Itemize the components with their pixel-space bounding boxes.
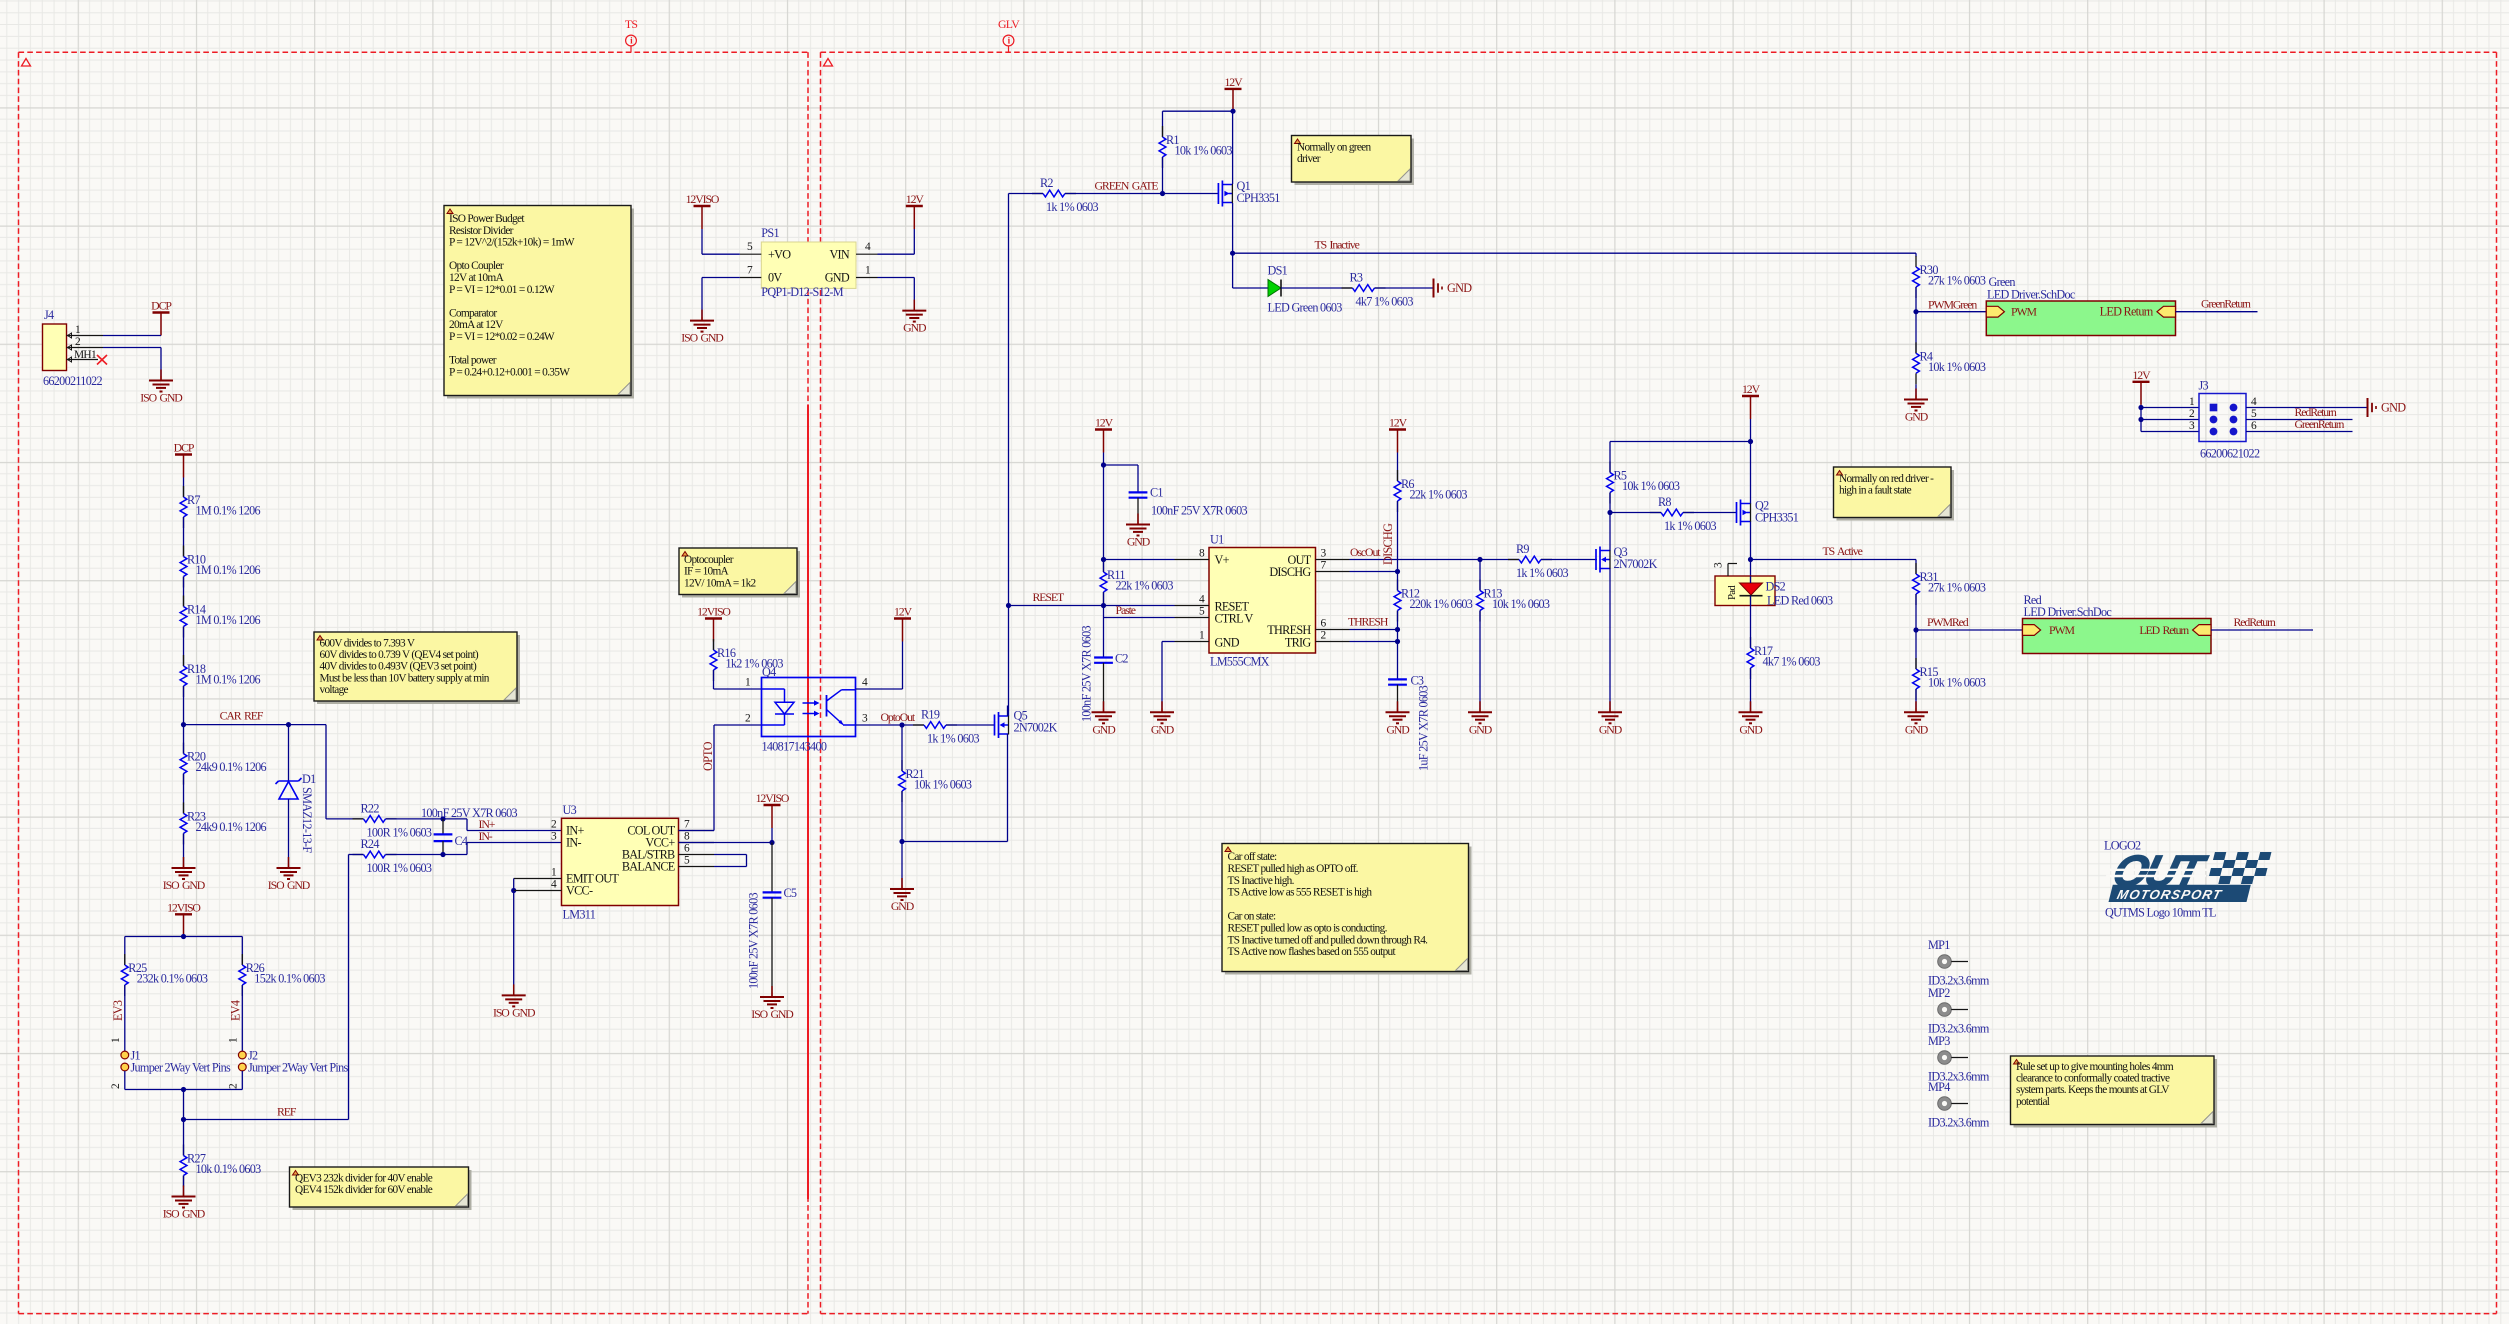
wire R3 to GND bar xyxy=(1375,287,1434,289)
svg-text:232k 0.1% 0603: 232k 0.1% 0603 xyxy=(137,972,208,986)
note QEV divider xyxy=(290,1167,472,1210)
wire R26 to J2 xyxy=(241,985,243,1051)
svg-text:24k9 0.1% 1206: 24k9 0.1% 1206 xyxy=(196,760,267,774)
ground ISO GND under R23 xyxy=(163,857,206,892)
net label CAR REF xyxy=(220,709,264,723)
resistor R12 xyxy=(1394,572,1473,622)
svg-text:Resistor Divider: Resistor Divider xyxy=(449,225,514,237)
ground GND under C1 xyxy=(1126,514,1151,549)
svg-text:ID3.2x3.6mm: ID3.2x3.6mm xyxy=(1928,1116,1990,1130)
power port 12VISO above C5 xyxy=(756,791,790,843)
isolation barrier solid red line xyxy=(807,405,809,1199)
svg-text:Normally on green: Normally on green xyxy=(1297,142,1371,154)
resistor R16 xyxy=(710,639,783,681)
svg-text:clearance to conformally coate: clearance to conformally coated tractive xyxy=(2016,1073,2170,1085)
net label REF xyxy=(277,1105,297,1119)
svg-text:LED Return: LED Return xyxy=(2139,623,2189,637)
GLV region dashed border xyxy=(821,52,2497,1313)
svg-text:4k7 1% 0603: 4k7 1% 0603 xyxy=(1356,295,1414,309)
svg-text:27k 1% 0603: 27k 1% 0603 xyxy=(1928,581,1986,595)
ground ISO GND under J4 xyxy=(140,370,183,405)
svg-text:GND: GND xyxy=(825,271,850,285)
svg-text:DS2: DS2 xyxy=(1766,580,1786,594)
note normally on red driver xyxy=(1834,467,1955,521)
note car off state xyxy=(1222,844,1472,975)
wire R30 to PWMGreen xyxy=(1913,287,1918,353)
wire TS Inactive xyxy=(1233,253,1916,256)
svg-text:BALANCE: BALANCE xyxy=(622,860,675,874)
wire R21 junction to GND xyxy=(901,842,903,886)
svg-text:CAR REF: CAR REF xyxy=(220,709,264,723)
svg-text:10k 1% 0603: 10k 1% 0603 xyxy=(1492,597,1550,611)
svg-text:IF = 10mA: IF = 10mA xyxy=(684,566,730,578)
resistor R9 xyxy=(1508,542,1569,580)
svg-text:EV3: EV3 xyxy=(111,1000,125,1021)
svg-text:4k7 1% 0603: 4k7 1% 0603 xyxy=(1763,655,1821,669)
wire U3 pin1 pin4 to ISO GND xyxy=(511,879,561,992)
svg-text:DISCHG: DISCHG xyxy=(1269,565,1311,579)
svg-text:TS: TS xyxy=(625,17,638,31)
net label RedReturn at J3 xyxy=(2295,405,2337,419)
net label OPTO vertical xyxy=(701,741,715,771)
resistor R15 xyxy=(1913,658,1986,708)
svg-text:22k 1% 0603: 22k 1% 0603 xyxy=(1410,488,1468,502)
wire Paste row xyxy=(1104,606,1175,658)
svg-text:GND: GND xyxy=(1905,410,1929,424)
svg-text:ISO Power Budget: ISO Power Budget xyxy=(449,213,525,225)
net label TS Active xyxy=(1823,544,1863,558)
svg-text:C2: C2 xyxy=(1115,652,1128,666)
svg-text:REF: REF xyxy=(277,1105,297,1119)
svg-text:LM311: LM311 xyxy=(563,908,596,922)
svg-text:140817143400: 140817143400 xyxy=(762,740,827,754)
svg-text:VIN: VIN xyxy=(829,248,849,262)
svg-text:LED Return: LED Return xyxy=(2100,305,2154,319)
svg-text:GND: GND xyxy=(1469,722,1493,736)
wire PS1 pin1 to GND xyxy=(878,278,915,308)
svg-text:PWM: PWM xyxy=(2049,623,2075,637)
net label PWMGreen xyxy=(1928,298,1977,312)
power port DCP upper xyxy=(174,441,195,498)
resistor R14 xyxy=(180,596,260,638)
svg-text:potential: potential xyxy=(2016,1096,2050,1108)
wire Q3 drain to R5 xyxy=(1609,513,1611,551)
wire R24 to U3 IN- xyxy=(386,843,562,858)
ground GND under R13 xyxy=(1468,701,1493,736)
wire PWMGreen xyxy=(1916,311,1986,313)
svg-text:12VISO: 12VISO xyxy=(697,605,731,619)
wire R19 to Q5 gate xyxy=(946,724,995,726)
svg-text:TS Inactive turned off and pul: TS Inactive turned off and pulled down t… xyxy=(1228,934,1429,946)
resistor R18 xyxy=(180,655,260,697)
net label OptoOut xyxy=(881,710,916,724)
svg-text:12V: 12V xyxy=(894,605,913,619)
svg-text:GND: GND xyxy=(903,321,927,335)
wire J4 pin2 down xyxy=(103,348,161,377)
svg-text:TS Inactive high.: TS Inactive high. xyxy=(1228,875,1295,887)
resistor R3 xyxy=(1342,271,1414,309)
svg-text:PWMRed: PWMRed xyxy=(1927,615,1969,629)
wire R20 to R23 xyxy=(183,774,185,814)
svg-text:voltage: voltage xyxy=(320,684,349,696)
net label OscOut xyxy=(1350,545,1381,559)
wire DS1 to R3 xyxy=(1281,287,1353,289)
svg-text:CPH3351: CPH3351 xyxy=(1755,511,1799,525)
svg-text:MP3: MP3 xyxy=(1928,1034,1950,1048)
wire THRESH pin6 xyxy=(1350,629,1398,631)
wire jumper bottom rail xyxy=(125,1071,243,1122)
resistor R21 xyxy=(899,725,972,802)
note voltage divider calcs xyxy=(314,632,520,704)
wire R6 to DISCHG row xyxy=(1395,501,1400,574)
wire 12V rail to R1 xyxy=(1163,109,1236,137)
net label GreenReturn at J3 xyxy=(2295,417,2345,431)
net label GreenReturn at sheet xyxy=(2201,297,2251,311)
svg-text:LED Driver.SchDoc: LED Driver.SchDoc xyxy=(1987,288,2076,302)
wire R8 to Q2 gate xyxy=(1683,512,1737,514)
svg-text:10k 1% 0603: 10k 1% 0603 xyxy=(1175,144,1233,158)
svg-text:DCP: DCP xyxy=(151,299,172,313)
svg-text:12VISO: 12VISO xyxy=(167,900,201,914)
svg-text:QEV4 152k divider for 60V enab: QEV4 152k divider for 60V enable xyxy=(295,1184,433,1196)
svg-text:GND: GND xyxy=(1599,722,1623,736)
wire R25 to J1 xyxy=(124,985,126,1051)
ground GND under R4 xyxy=(1904,389,1929,424)
svg-text:PQP1-D12-S12-M: PQP1-D12-S12-M xyxy=(761,285,843,299)
wire RESET xyxy=(1009,603,1175,608)
wire V+ row xyxy=(1101,557,1175,562)
TS directive marker xyxy=(625,17,638,52)
ground GND under PS1 xyxy=(902,300,927,335)
net label IN+ xyxy=(479,817,496,831)
net label PWMRed xyxy=(1927,615,1969,629)
net label EV4 vertical xyxy=(229,1000,243,1021)
svg-text:GND: GND xyxy=(1739,722,1763,736)
power port 12VISO above jumpers xyxy=(167,900,201,936)
capacitor C5 xyxy=(747,843,797,993)
svg-text:GND: GND xyxy=(1151,722,1175,736)
svg-text:GND: GND xyxy=(1447,281,1472,295)
resistor R10 xyxy=(180,546,260,588)
svg-text:CPH3351: CPH3351 xyxy=(1237,191,1281,205)
resistor R1 xyxy=(1159,126,1232,194)
wire 12VISO to PS1 pin5 xyxy=(702,253,740,255)
note normally on green driver xyxy=(1292,136,1415,186)
svg-text:Pad: Pad xyxy=(1726,585,1738,600)
svg-text:2N7002K: 2N7002K xyxy=(1014,721,1058,735)
svg-text:24k9 0.1% 1206: 24k9 0.1% 1206 xyxy=(196,820,267,834)
svg-text:LM555CMX: LM555CMX xyxy=(1210,655,1270,669)
wire TRIG pin2 xyxy=(1350,641,1398,643)
svg-text:66200621022: 66200621022 xyxy=(2200,447,2260,461)
LED DS1 green xyxy=(1268,264,1343,315)
svg-text:J3: J3 xyxy=(2199,379,2209,393)
svg-text:100R 1% 0603: 100R 1% 0603 xyxy=(367,861,432,875)
svg-text:high in a fault state: high in a fault state xyxy=(1839,485,1912,497)
comparator U3 LM311 xyxy=(551,803,714,922)
wire U3 VCC+ to 12VISO xyxy=(679,840,775,845)
svg-text:12V: 12V xyxy=(1389,416,1408,430)
svg-text:12V: 12V xyxy=(1095,416,1114,430)
resistor R22 xyxy=(353,801,432,839)
power port 12V at PS1 xyxy=(906,192,925,254)
svg-text:1M 0.1% 1206: 1M 0.1% 1206 xyxy=(196,673,261,687)
capacitor C1 xyxy=(1129,486,1248,521)
svg-text:MH1: MH1 xyxy=(74,349,97,361)
resistor R20 xyxy=(180,725,266,785)
resistor R27 xyxy=(180,1120,261,1193)
svg-text:U3: U3 xyxy=(563,803,577,817)
svg-text:GND: GND xyxy=(891,899,915,913)
jumper J1 xyxy=(110,1037,231,1089)
svg-text:C4: C4 xyxy=(455,834,468,848)
ground ISO GND under D1 xyxy=(268,857,311,892)
svg-text:TS Inactive: TS Inactive xyxy=(1315,238,1360,252)
power port 12V above C1 xyxy=(1095,416,1114,560)
connector J4 xyxy=(43,308,104,388)
wire Q1 drain xyxy=(1232,111,1234,184)
net label Green above sheet xyxy=(1989,275,2016,289)
svg-text:1M 0.1% 1206: 1M 0.1% 1206 xyxy=(196,613,261,627)
net label Paste xyxy=(1116,603,1136,617)
resistor R13 xyxy=(1477,560,1550,709)
wire J3 pin4 to GND bar xyxy=(2246,407,2368,409)
wire Q1 source to TS Inactive xyxy=(1230,203,1235,288)
ground GND under R17 xyxy=(1739,701,1764,736)
svg-text:Normally on red driver -: Normally on red driver - xyxy=(1839,473,1934,485)
svg-text:RESET pulled high as OPTO off.: RESET pulled high as OPTO off. xyxy=(1228,863,1359,875)
svg-text:100nF 25V X7R 0603: 100nF 25V X7R 0603 xyxy=(1080,626,1094,722)
svg-text:TRIG: TRIG xyxy=(1285,636,1312,650)
svg-text:12V: 12V xyxy=(2132,368,2151,382)
svg-text:GND: GND xyxy=(1215,636,1240,650)
svg-text:ISO GND: ISO GND xyxy=(493,1005,536,1019)
wire Q3 source to GND xyxy=(1609,569,1611,709)
svg-text:12V at 10mA: 12V at 10mA xyxy=(449,272,505,284)
svg-text:D1: D1 xyxy=(302,772,316,786)
ground GND under Q3 xyxy=(1598,701,1623,736)
svg-text:TS Active: TS Active xyxy=(1823,544,1863,558)
resistor R17 xyxy=(1747,606,1820,709)
svg-text:ISO GND: ISO GND xyxy=(751,1007,794,1021)
zener diode D1 xyxy=(276,725,317,864)
svg-text:P = 0.24+0.12+0.001 = 0.35W: P = 0.24+0.12+0.001 = 0.35W xyxy=(449,366,570,378)
note ISO power budget xyxy=(444,206,634,399)
svg-text:ISO GND: ISO GND xyxy=(681,331,724,345)
svg-text:GLV: GLV xyxy=(998,17,1020,31)
net label EV3 vertical xyxy=(111,1000,125,1021)
svg-text:IN-: IN- xyxy=(566,836,581,850)
wire R18 to CAR REF xyxy=(183,686,185,725)
svg-text:+VO: +VO xyxy=(768,248,791,262)
note optocoupler xyxy=(679,548,800,598)
wire CAR REF to R22 xyxy=(326,725,364,819)
svg-text:PWMGreen: PWMGreen xyxy=(1928,298,1977,312)
QUT Motorsport logo LOGO2 xyxy=(2100,839,2273,920)
svg-text:1M 0.1% 1206: 1M 0.1% 1206 xyxy=(196,504,261,518)
wire R23 to ISO GND xyxy=(183,833,185,864)
net label RedReturn at sheet xyxy=(2234,615,2276,629)
mounting pad MP2 xyxy=(1928,986,1990,1036)
svg-text:R9: R9 xyxy=(1516,542,1529,556)
svg-text:GND: GND xyxy=(1127,535,1151,549)
svg-text:THRESH: THRESH xyxy=(1348,615,1389,629)
svg-text:C1: C1 xyxy=(1150,486,1163,500)
svg-text:CTRL V: CTRL V xyxy=(1215,612,1254,626)
svg-text:152k 0.1% 0603: 152k 0.1% 0603 xyxy=(254,972,325,986)
resistor R8 xyxy=(1610,495,1717,533)
svg-text:Paste: Paste xyxy=(1116,603,1136,617)
svg-text:GND: GND xyxy=(1905,722,1929,736)
svg-text:Q4: Q4 xyxy=(762,665,776,679)
power port 12V above J3 xyxy=(2132,368,2151,432)
svg-text:27k 1% 0603: 27k 1% 0603 xyxy=(1928,274,1986,288)
resistor R7 xyxy=(180,486,260,528)
wire U3 BAL/STRB to BALANCE loop xyxy=(714,855,747,867)
svg-text:600V divides to 7.393 V: 600V divides to 7.393 V xyxy=(320,638,416,650)
svg-text:GND: GND xyxy=(1386,722,1410,736)
wire GreenReturn xyxy=(2176,311,2258,313)
svg-text:RESET pulled low as opto is co: RESET pulled low as opto is conducting. xyxy=(1228,922,1388,934)
svg-text:OptoOut: OptoOut xyxy=(881,710,916,724)
svg-text:1k 1% 0603: 1k 1% 0603 xyxy=(1664,519,1717,533)
wire R12 to THRESH xyxy=(1395,611,1400,633)
svg-text:MOTORSPORT: MOTORSPORT xyxy=(2116,887,2224,902)
svg-text:12V: 12V xyxy=(906,192,925,206)
svg-text:C5: C5 xyxy=(784,886,797,900)
svg-text:Comparator: Comparator xyxy=(449,307,497,319)
net label THRESH xyxy=(1348,615,1389,629)
svg-text:R22: R22 xyxy=(361,801,380,815)
wire R9 to Q3 gate xyxy=(1541,559,1597,561)
resistor R5 xyxy=(1607,442,1680,516)
resistor R11 xyxy=(1100,560,1173,606)
svg-text:12V: 12V xyxy=(1742,382,1761,396)
ground GND under U1 xyxy=(1150,701,1175,736)
wire U1 GND pin to ground xyxy=(1162,642,1175,709)
svg-text:R8: R8 xyxy=(1658,495,1671,509)
svg-text:LED Driver.SchDoc: LED Driver.SchDoc xyxy=(2024,605,2113,619)
resistor R30 xyxy=(1913,256,1986,298)
svg-text:100nF 25V X7R 0603: 100nF 25V X7R 0603 xyxy=(747,893,761,989)
LED DS2 red xyxy=(1740,576,1833,608)
svg-text:TS Active low as 555 RESET is: TS Active low as 555 RESET is high xyxy=(1228,887,1373,899)
wire Q5 drain up xyxy=(1007,706,1009,717)
svg-text:1uF 25V X7R 0603: 1uF 25V X7R 0603 xyxy=(1417,685,1431,771)
ground ISO GND under U3 xyxy=(493,984,536,1019)
wire REF xyxy=(184,855,349,1120)
svg-text:Optocoupler: Optocoupler xyxy=(684,554,734,566)
wire J3 pin5 xyxy=(2246,419,2353,421)
power port 12V above opto pin4 xyxy=(894,605,913,690)
svg-text:P = VI = 12*0.01 = 0.12W: P = VI = 12*0.01 = 0.12W xyxy=(449,284,555,296)
svg-text:V+: V+ xyxy=(1215,553,1230,567)
GLV directive marker xyxy=(998,17,1020,52)
svg-text:VCC-: VCC- xyxy=(566,884,593,898)
svg-text:GND: GND xyxy=(1092,722,1116,736)
capacitor C4 xyxy=(421,806,517,855)
transistor Q3 2N7002K xyxy=(1596,545,1658,573)
TS isolation region dashed border xyxy=(19,52,809,1313)
svg-text:DS1: DS1 xyxy=(1268,264,1288,278)
svg-text:U1: U1 xyxy=(1210,533,1224,547)
svg-text:OPTO: OPTO xyxy=(701,741,715,771)
wire opto pin4 to 12V xyxy=(856,688,903,690)
wire J4 pin1 to DCP xyxy=(103,335,161,337)
resistor R4 xyxy=(1913,342,1986,395)
svg-text:1k 1% 0603: 1k 1% 0603 xyxy=(1516,566,1569,580)
svg-text:driver: driver xyxy=(1297,153,1321,165)
mounting pad MP4 xyxy=(1928,1080,1990,1130)
net label IN- xyxy=(479,829,493,843)
resistor R24 xyxy=(349,837,432,875)
ground GND bar at J3 xyxy=(2368,398,2407,417)
transistor Q2 CPH3351 xyxy=(1737,499,1799,526)
svg-text:Must be less than 10V battery: Must be less than 10V battery supply at … xyxy=(320,672,490,684)
resistor R19 xyxy=(913,708,980,746)
mounting pad MP3 xyxy=(1928,1034,1990,1084)
wire R14 to R18 xyxy=(183,627,185,667)
svg-text:220k 1% 0603: 220k 1% 0603 xyxy=(1410,597,1473,611)
svg-text:100nF 25V X7R 0603: 100nF 25V X7R 0603 xyxy=(421,806,517,820)
resistor R26 xyxy=(239,954,325,996)
wire 12V to J3 pins xyxy=(2138,405,2199,432)
svg-text:GND: GND xyxy=(2381,401,2406,415)
svg-text:RESET: RESET xyxy=(1033,590,1065,604)
svg-text:10k 1% 0603: 10k 1% 0603 xyxy=(1928,676,1986,690)
svg-text:Jumper 2Way Vert Pins: Jumper 2Way Vert Pins xyxy=(131,1061,231,1075)
note mounting hole rule xyxy=(2011,1056,2218,1128)
svg-text:Car off state:: Car off state: xyxy=(1228,851,1278,863)
wire GREEN GATE xyxy=(1065,191,1218,196)
svg-text:OscOut: OscOut xyxy=(1350,545,1381,559)
svg-text:PWM: PWM xyxy=(2011,305,2037,319)
svg-text:R2: R2 xyxy=(1040,176,1053,190)
resistor R2 xyxy=(1009,176,1099,214)
svg-text:EV4: EV4 xyxy=(229,1000,243,1021)
net label RESET xyxy=(1033,590,1065,604)
svg-text:60V divides to 0.739 V (QEV4 s: 60V divides to 0.739 V (QEV4 set point) xyxy=(320,649,479,661)
svg-text:1k 1% 0603: 1k 1% 0603 xyxy=(927,732,980,746)
resistor R6 xyxy=(1394,470,1467,512)
svg-text:Jumper 2Way Vert Pins: Jumper 2Way Vert Pins xyxy=(248,1061,348,1075)
ground ISO GND under R27 xyxy=(163,1186,206,1221)
no-ERC marker on MH1 xyxy=(97,355,107,365)
svg-text:ISO GND: ISO GND xyxy=(163,878,206,892)
svg-text:10k 0.1% 0603: 10k 0.1% 0603 xyxy=(196,1162,262,1176)
ground ISO GND under PS1 xyxy=(681,310,724,345)
sheet symbol Green LED Driver xyxy=(1986,288,2175,336)
svg-text:P = 12V^2/(152k+10k) = 1mW: P = 12V^2/(152k+10k) = 1mW xyxy=(449,237,575,249)
wire R10 to R14 xyxy=(183,577,185,607)
svg-text:Opto Coupler: Opto Coupler xyxy=(449,260,504,272)
connector J3 xyxy=(2189,379,2260,461)
svg-text:J4: J4 xyxy=(44,308,54,322)
svg-text:LED Green 0603: LED Green 0603 xyxy=(1268,301,1343,315)
svg-text:Rule set up to give mounting h: Rule set up to give mounting holes 4mm xyxy=(2016,1061,2174,1073)
capacitor C3 xyxy=(1388,674,1430,772)
wire DISCHG pin7 xyxy=(1350,571,1398,573)
svg-text:20mA at 12V: 20mA at 12V xyxy=(449,319,504,331)
svg-text:12V: 12V xyxy=(1224,75,1243,89)
resistor R23 xyxy=(180,802,266,844)
wire U3 COL OUT up to opto xyxy=(679,725,762,831)
svg-text:QEV3 232k divider for 40V enab: QEV3 232k divider for 40V enable xyxy=(295,1173,433,1185)
power port 12VISO above R16 xyxy=(697,605,731,651)
wire opto pin3 OptoOut xyxy=(856,722,925,727)
svg-text:DISCHG: DISCHG xyxy=(1381,523,1395,565)
ground GND under R15 xyxy=(1904,701,1929,736)
